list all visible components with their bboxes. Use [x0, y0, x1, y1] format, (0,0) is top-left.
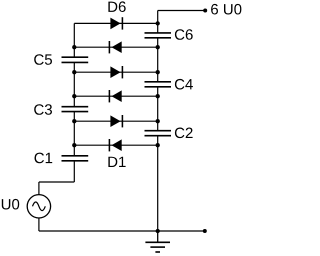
label C6 [175, 29, 193, 40]
junction left rail D2 [72, 119, 76, 123]
junction left rail D1 [72, 143, 76, 147]
capacitor C4 [145, 82, 172, 87]
capacitor C3 [62, 107, 89, 112]
diode D5 [109, 41, 121, 53]
capacitor C1 [62, 156, 89, 161]
wire left rail segment 2 [73, 62, 75, 106]
label C4 [175, 79, 193, 90]
label U0 [2, 199, 19, 210]
junction right rail D4 [156, 70, 160, 74]
wire right rail segment 4 [157, 136, 159, 231]
wire left rail segment 3 [73, 112, 75, 156]
label C5 [34, 54, 52, 65]
diode D2 [110, 115, 122, 127]
label node 6 U0 [211, 4, 241, 15]
wire row2 D5 horizontal [74, 46, 157, 48]
wire source top stub [38, 182, 40, 195]
ground [145, 231, 170, 252]
junction left rail D4 [72, 70, 76, 74]
junction right rail D2 [156, 119, 160, 123]
capacitor C6 [145, 33, 172, 38]
junction left rail D3 [72, 94, 76, 98]
wire source bottom stub [38, 218, 40, 231]
junction right rail D3 [156, 94, 160, 98]
label D1 [108, 157, 125, 167]
junction bottom rail at ground [156, 229, 160, 233]
node 6 U0 terminal dot [203, 9, 207, 13]
source U0 (AC) [27, 195, 50, 218]
wire bottom rail [39, 230, 205, 232]
wire row3 D4 horizontal [74, 71, 157, 73]
wire row1 D6 horizontal [74, 22, 157, 24]
wire row6 D1 horizontal [74, 144, 157, 146]
label C3 [34, 104, 52, 115]
junction left rail D5 [72, 45, 76, 49]
label C1 [35, 153, 53, 164]
wire left rail segment 1 [73, 23, 75, 57]
wire row4 D3 horizontal [74, 95, 157, 97]
capacitor C5 [62, 57, 89, 62]
wire right rail segment 2 [157, 38, 159, 82]
wire right rail output riser [157, 11, 159, 33]
wire right rail segment 3 [157, 87, 159, 131]
wire left rail segment 4 [73, 161, 75, 182]
junction right rail D5 [156, 45, 160, 49]
capacitor C2 [145, 131, 172, 136]
wire row5 D2 horizontal [74, 120, 157, 122]
junction right rail D6 [156, 21, 160, 25]
wire output horizontal to node 6 U0 [158, 10, 205, 12]
diode D4 [110, 66, 122, 78]
wire source top horizontal [39, 181, 74, 183]
diode D3 [109, 90, 121, 102]
node bottom right terminal dot [203, 229, 207, 233]
diode D6 [110, 17, 122, 29]
label D6 [108, 1, 125, 12]
diode D1 [109, 139, 121, 151]
junction right rail D1 [156, 143, 160, 147]
label C2 [175, 128, 193, 139]
